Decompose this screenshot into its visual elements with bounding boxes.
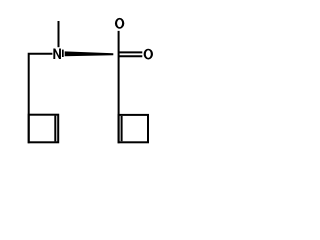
double bond inner line, left ring — [54, 116, 56, 142]
wedge bond cap tick at N end — [62, 50, 64, 57]
double bond C=O bottom line — [119, 55, 143, 57]
wedge bond from N to carbonyl carbon — [65, 51, 114, 56]
atom label O top — [115, 18, 124, 29]
ring: left cyclobutene square — [29, 115, 59, 143]
bond: N to left chain with corner, down to ring — [29, 54, 53, 144]
atom label O right — [144, 49, 153, 60]
atom label N — [53, 49, 61, 60]
ring: right cyclobutene square — [119, 115, 148, 142]
bond: N-methyl vertical line — [58, 21, 60, 47]
bond: vertical line O-top through carbonyl C down to right ring — [118, 31, 120, 143]
double bond C=O top line — [119, 51, 143, 53]
double bond inner line, right ring — [121, 116, 123, 141]
